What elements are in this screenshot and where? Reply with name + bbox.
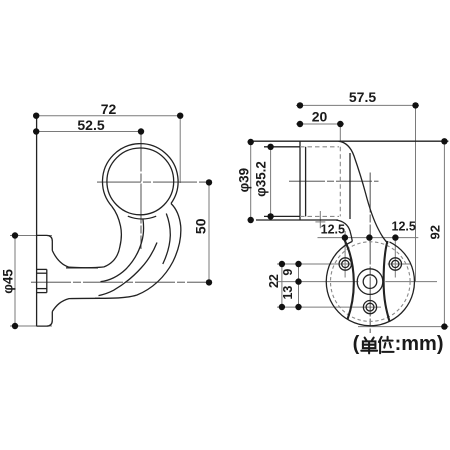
svg-text:φ45: φ45 <box>0 269 15 294</box>
svg-text:9: 9 <box>281 269 295 276</box>
svg-text:φ35.2: φ35.2 <box>253 161 268 197</box>
svg-text:50: 50 <box>193 218 209 234</box>
svg-text::mm): :mm) <box>395 333 444 355</box>
svg-text:22: 22 <box>267 274 281 288</box>
svg-text:72: 72 <box>101 101 117 117</box>
svg-text:92: 92 <box>428 225 443 239</box>
svg-text:13: 13 <box>281 286 295 300</box>
svg-text:12.5: 12.5 <box>392 220 416 234</box>
svg-text:12.5: 12.5 <box>321 222 345 236</box>
svg-text:(: ( <box>353 333 360 355</box>
svg-text:52.5: 52.5 <box>77 117 104 133</box>
svg-text:φ39: φ39 <box>237 168 252 192</box>
svg-text:57.5: 57.5 <box>349 89 376 105</box>
svg-text:20: 20 <box>312 109 328 125</box>
